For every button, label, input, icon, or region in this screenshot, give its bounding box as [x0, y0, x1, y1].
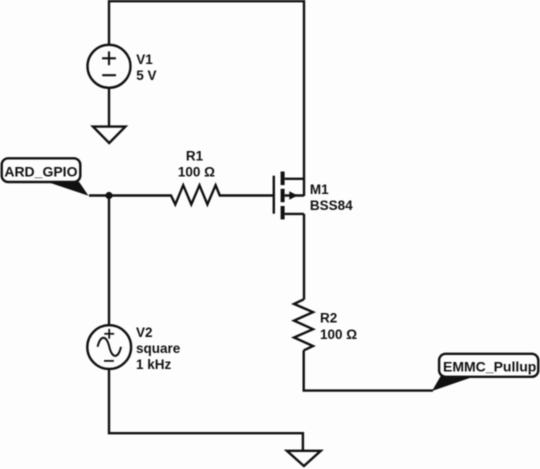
- svg-text:100 Ω: 100 Ω: [320, 327, 357, 342]
- svg-text:BSS84: BSS84: [310, 198, 353, 213]
- svg-text:R1: R1: [186, 149, 204, 164]
- svg-text:100 Ω: 100 Ω: [178, 164, 215, 179]
- svg-text:V2: V2: [136, 325, 153, 340]
- svg-text:M1: M1: [310, 182, 329, 197]
- svg-text:R2: R2: [320, 310, 337, 325]
- svg-text:5 V: 5 V: [136, 68, 156, 83]
- svg-text:square: square: [136, 341, 181, 356]
- svg-text:ARD_GPIO: ARD_GPIO: [4, 164, 77, 180]
- svg-text:EMMC_Pullup: EMMC_Pullup: [443, 358, 536, 374]
- svg-text:1 kHz: 1 kHz: [136, 357, 172, 372]
- svg-text:V1: V1: [136, 52, 153, 67]
